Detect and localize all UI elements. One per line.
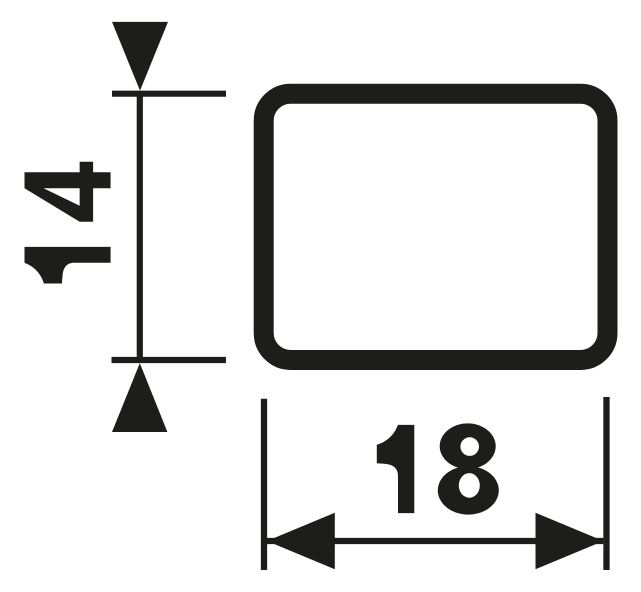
dimension 14: top tick — [112, 91, 226, 97]
dimension 14: bottom tick — [112, 357, 227, 363]
dimension 14: label digit 4 (rotated) — [25, 162, 111, 222]
dimension 18: right extension line — [603, 397, 609, 570]
dimension 14: bottom arrowhead (points up) — [112, 363, 167, 432]
dimension 18: left arrowhead (points left) — [267, 513, 335, 569]
dimension 18: horizontal dimension line — [267, 538, 603, 544]
rounded square component outline — [264, 94, 608, 360]
dimension 14: vertical dimension line — [137, 94, 143, 360]
dimension 18: label digit 1 — [377, 425, 415, 513]
dimension 14: top arrowhead (points down) — [112, 22, 168, 91]
dimension 18: left extension line — [261, 399, 267, 570]
dimension 18: label digit 8 — [438, 423, 499, 514]
dimension 18: right arrowhead (points right) — [536, 513, 604, 569]
dimension 14: label digit 1 (rotated) — [25, 247, 111, 284]
